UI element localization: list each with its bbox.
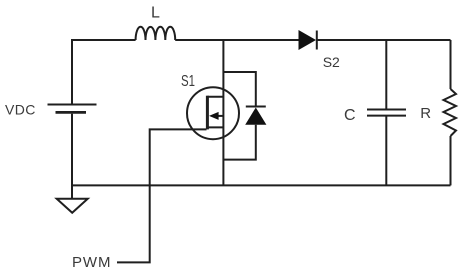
transistor S1 (MOSFET) — [187, 87, 239, 139]
svg-text:S1: S1 — [181, 73, 195, 90]
wire left vertical (source minus lead down to ground) — [71, 114, 73, 199]
svg-text:L: L — [151, 4, 160, 21]
battery VDC — [48, 105, 97, 113]
wire top rail middle segment — [175, 39, 298, 41]
svg-text:S2: S2 — [323, 54, 340, 70]
svg-text:C: C — [344, 107, 356, 124]
resistor R — [444, 40, 457, 185]
wire top rail right segment — [317, 39, 451, 41]
svg-text:VDC: VDC — [5, 102, 36, 118]
wire gate lead from PWM — [117, 129, 207, 262]
wire left vertical (source plus lead) — [71, 40, 73, 105]
diode S2 — [299, 30, 317, 50]
diode (MOSFET body diode) — [223, 72, 266, 160]
svg-text:R: R — [420, 105, 431, 122]
wire top rail left segment — [72, 40, 136, 41]
capacitor C — [367, 40, 406, 185]
inductor L — [136, 27, 176, 40]
svg-text:PWM: PWM — [72, 254, 111, 271]
ground — [57, 199, 88, 213]
wire MOSFET drain-source vertical — [222, 40, 224, 185]
wire bottom rail — [72, 184, 451, 186]
